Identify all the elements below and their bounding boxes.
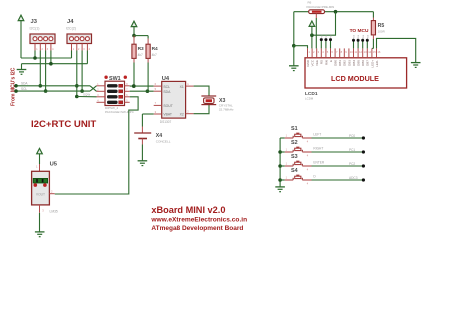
battery X4 value CONCELL [156,139,171,143]
battery X4 pin - wire [141,139,143,161]
junction SQW wire end [75,95,79,99]
junction SDA left end [14,84,18,88]
svg-text:DB2: DB2 [343,60,347,66]
svg-text:LED-: LED- [375,60,379,67]
svg-text:TO MCU: TO MCU [350,28,369,34]
svg-text:VCC: VCC [311,59,315,66]
crystal X3 value CRYSTAL [219,103,233,107]
IC U4 pin 5 SDA stub [154,87,162,91]
switch S4 function label D [313,174,316,178]
switch SW1 rocker elements [107,84,123,104]
junction SCL left end [14,89,18,93]
node PC2 endpoint [362,164,365,167]
sensor U5 indicator dots [34,183,47,187]
switch S3 pin 1 lead [280,162,293,166]
svg-text:4k7: 4k7 [152,53,157,57]
wire J4 pin2 down to SQW [76,51,78,97]
IC U4 pin 6 SCL stub [154,82,162,86]
switch S3 label [291,154,298,160]
svg-text:I2C+RTC UNIT: I2C+RTC UNIT [31,119,96,130]
switch S1 label [291,126,298,132]
wire SW1 pin8 to U4 SCL [130,85,154,87]
svg-text:VEE: VEE [315,60,319,66]
power VCC symbol (pullups) [131,21,137,35]
svg-text:100R: 100R [378,29,386,33]
sensor U5 pin 3 stub [40,205,45,213]
resistor R4 body [146,44,150,58]
junction J3 pin2 / SDA [39,84,43,88]
svg-text:DS1307: DS1307 [160,120,172,124]
wire U5 pin3 to ground [39,213,41,232]
junction J4 pin2 / SDA [75,84,79,88]
svg-text:R6: R6 [308,0,312,4]
connector J4 value I2C(2) [66,27,76,31]
svg-text:15: 15 [373,50,376,54]
junction bus/S3 [278,164,282,168]
crystal X3 value 32.768kHz [219,107,234,111]
wire SW1 pin7 to U4 SDA [130,90,154,92]
svg-text:DB4: DB4 [352,60,356,66]
svg-text:DB6: DB6 [361,60,365,66]
switch S4 pin 4 lead [302,180,311,185]
svg-text:ATmega8 Development Board: ATmega8 Development Board [151,225,243,232]
LCD1 pin names [306,59,379,67]
svg-text:R3: R3 [138,46,144,52]
net label PC2 [349,162,355,166]
crystal X3 body [204,98,214,104]
connector J3 value I2C(1) [30,27,40,31]
svg-text:SDA: SDA [21,82,28,86]
svg-text:www.eXtremeElectronics.co.in: www.eXtremeElectronics.co.in [150,216,247,223]
wire GND rail to J3/J4 pin4 [22,51,88,64]
junction VCC rail / J3 pin1 [33,56,37,60]
net wire PC0 [312,137,364,139]
connector J3 pins 1-4 [35,44,54,51]
resistor R3 pin 2 wire to SCL net [133,58,135,86]
svg-text:J4: J4 [67,19,74,25]
net label PC1 [349,148,355,152]
wire crossover SCL to SW1 pin1 [90,86,97,91]
net wire PC1 [312,151,364,153]
sensor U5 value LM35 [50,210,58,214]
svg-text:LCDM: LCDM [305,96,314,100]
text I2C+RTC UNIT title [31,119,96,130]
wire LCD GND feed [293,12,295,46]
LCD1 pins 1-16 [308,48,381,57]
text LCD MODULE [331,74,379,83]
svg-text:LEFT: LEFT [313,132,321,136]
svg-text:DB7: DB7 [366,60,370,66]
svg-text:R5: R5 [378,23,385,29]
switch S4 label [291,168,298,174]
svg-text:PC2: PC2 [349,162,355,166]
svg-text:4k7: 4k7 [138,53,143,57]
switch S1 pin 4 lead [302,138,311,143]
svg-text:X2: X2 [180,113,184,117]
svg-text:SQW: SQW [83,92,90,96]
switch S2 label [291,140,298,146]
LCD1 label [305,91,318,97]
wire U4 VBAT to battery [142,114,153,127]
wire J4 pin3 to SCL [81,51,83,92]
switch S4 pin 1 lead [280,176,293,180]
trimmer R6 wiper wire to VEE pin [315,14,317,49]
svg-text:14: 14 [368,50,371,54]
switch S1 function label LEFT [313,132,321,136]
svg-text:PC0: PC0 [349,134,355,138]
power VCC symbol (LCD) [309,21,315,48]
svg-text:U5: U5 [50,161,58,167]
svg-text:DB5: DB5 [357,60,361,66]
connector J4 body [67,34,92,44]
resistor R4 pin 1 [147,39,149,45]
text TO MCU [350,28,369,34]
junction bus/S4 [278,178,282,182]
text www.eXtremeElectronics.co.in [150,216,247,223]
svg-text:10: 10 [350,50,353,54]
junction bus/S2 [278,150,282,154]
text ATmega8 Development Board [151,225,243,232]
svg-text:LCD MODULE: LCD MODULE [331,74,379,83]
sensor U5 pin 1 stub [36,164,40,171]
junction J4 pin3 / SCL [80,89,84,93]
LCD1 module body [305,58,407,88]
wire to LCD pin1 GND [294,46,308,49]
sensor U5 VOUT text [36,192,45,196]
ground (I2C headers) [17,64,27,75]
switch S3 button [293,161,302,166]
switch S1 pin 1 lead [280,134,293,138]
sensor U5 body [32,171,50,205]
LCD1 value LCDM [305,96,314,100]
svg-text:S4: S4 [291,168,298,174]
svg-text:SCL: SCL [21,87,27,91]
svg-text:xBoard MINI v2.0: xBoard MINI v2.0 [151,205,225,215]
battery X4 plates [134,133,151,139]
resistor R3 body [132,44,136,58]
resistor R4 value 4k7 [152,53,157,57]
svg-text:12: 12 [359,50,362,54]
svg-text:32.768kHz: 32.768kHz [219,107,234,111]
junction R3 / SCL wire [132,84,136,88]
ground (LM35) [35,232,45,237]
svg-text:SCL: SCL [163,85,170,89]
svg-text:X4: X4 [156,133,162,139]
wire crossover SDA to SW1 pin2 [90,86,97,92]
svg-text:RS: RS [320,60,324,64]
junction R4 / SDA wire [146,89,150,93]
switch SW1 body [105,81,125,105]
sensor U5 display bar [33,178,47,183]
switch S3 function label ENTER [313,160,325,164]
junction VCC / R3 R4 branch [132,34,136,38]
svg-text:DB1: DB1 [338,60,342,66]
switch S1 button [293,133,302,138]
svg-text:DB0: DB0 [334,60,338,66]
IC U4 pin 2 X2 stub [186,110,194,114]
svg-text:PACKAGE=PRE-MIN: PACKAGE=PRE-MIN [307,5,335,9]
power VCC symbol (J3/J4 supply) [18,15,24,58]
switch S2 pin 1 lead [280,148,293,152]
wire VCC branch down-left [312,12,336,36]
svg-text:SDA: SDA [163,90,171,94]
svg-text:S2: S2 [291,140,298,146]
wire VCC rail to J3/J4 pin1 [21,51,72,59]
connector J4 label [67,19,74,25]
node PC1 endpoint [362,150,365,153]
wire SW1 pin6 to LM35 VOUT (staple) [55,97,138,194]
switch S2 button [293,147,302,152]
svg-text:ENTER: ENTER [313,160,325,164]
svg-text:GND: GND [306,59,310,67]
resistor R4 pin 2 wire to SDA net [147,58,149,91]
net label SCL [21,87,27,91]
connector J3 label [31,19,38,25]
resistor R4 label [152,46,158,52]
net label SQW [83,92,90,96]
ground (LCD left) [289,66,299,71]
svg-text:RW: RW [324,60,328,65]
trimmer R6 value PACKAGE=PRE-MIN [307,5,335,9]
svg-text:SOUT: SOUT [163,104,172,108]
svg-text:X1: X1 [180,85,184,89]
battery X4 label [156,133,162,139]
svg-text:16: 16 [377,50,380,54]
switch SW1 right pins 8-5 [125,84,130,103]
connector J3 body [30,34,55,44]
resistor R5 label [378,23,385,29]
svg-text:S1: S1 [291,126,298,132]
resistor R5 body [371,21,375,35]
resistor R3 pin 1 [133,36,135,45]
power VCC symbol (LM35) [37,148,43,164]
crystal X3 label [219,98,225,104]
wire LCD VCC top rail [294,11,374,13]
wire VCC branch to R4 [134,36,148,39]
switch S2 function label RIGHT [313,146,323,150]
svg-text:From MCU's I2C: From MCU's I2C [11,67,17,106]
IC U4 label [162,76,170,82]
svg-text:CONCELL: CONCELL [156,139,171,143]
trimmer R6 body [309,10,325,14]
wire switch ground bus [279,138,281,187]
wire J3 pin2 to SDA [39,51,41,86]
resistor R5 pin2 wire to LED+ pin [372,35,374,49]
svg-text:R4: R4 [152,46,158,52]
switch S3 pin 4 lead [302,166,311,171]
wire U4 X1 to crystal [194,86,209,96]
trimmer R6 label [308,0,312,4]
resistor R3 value 4k7 [138,53,143,57]
svg-text:DB3: DB3 [347,60,351,66]
junction GND rail / J3 pin4 [49,62,53,66]
switch SW1 left pins 1-4 [97,84,106,103]
svg-text:13: 13 [364,50,367,54]
svg-text:LM35: LM35 [50,210,58,214]
net label PC0 [349,134,355,138]
ground (switch bus) [275,187,285,192]
IC U4 pin names [163,85,184,117]
text xBoard MINI v2.0 [151,205,225,215]
svg-text:VOUT: VOUT [36,192,45,196]
switch S2 pin 4 lead [302,152,311,157]
IC U4 pin 7 SOUT stub [154,101,162,105]
switch SW1 label with dots [104,76,127,83]
junction VCC branch / VCC pin stem [310,33,314,37]
sensor U5 label [50,161,58,167]
switch SW1 value PACKAGE=SW-DIP4 [105,110,134,114]
svg-text:LED+: LED+ [370,60,374,68]
battery X4 pin + [141,127,143,134]
wire LED- pin to ground [377,38,416,62]
wire crystal to U4 X2 [194,105,209,114]
resistor R5 value 100R [378,29,386,33]
svg-text:ADC3: ADC3 [349,176,358,180]
net label ADC3 [349,176,358,180]
svg-text:S3: S3 [291,154,298,160]
nodes RS RW E to MCU with labels [320,33,333,48]
net SCL wire [16,90,90,92]
svg-text:I2C(2): I2C(2) [66,27,76,31]
resistor R5 pin1 wire from rail [372,12,374,21]
junction J3 pin3 / SCL [44,89,48,93]
svg-text:11: 11 [354,50,357,54]
junction R3 riser on SCL wire [132,84,136,88]
net wire PC2 [312,165,364,167]
node ADC3 endpoint [362,178,365,181]
IC U4 pin 3 VBAT stub [154,110,162,114]
node PC0 endpoint [362,136,365,139]
svg-text:PC1: PC1 [349,148,355,152]
wire GND feed to ground [293,46,295,66]
svg-text:I2C(1): I2C(1) [30,27,40,31]
net label SDA [21,82,28,86]
switch S4 button [293,175,302,180]
wire J3 pin3 to SCL [45,51,47,92]
net SQW wire to SW1 pin3 [77,96,97,98]
IC U4 pin 1 X1 stub [186,82,194,86]
IC U4 body [162,81,186,118]
crystal X3 plates [201,96,216,105]
svg-text:J3: J3 [31,19,38,25]
resistor R3 label [138,46,144,52]
nodes DB4-DB7 to MCU with labels [352,34,369,48]
IC U4 value DS1307 [160,120,172,124]
svg-text:RIGHT: RIGHT [313,146,323,150]
svg-text:E: E [329,60,333,62]
switch SW1 value DIPSW_4 [105,106,119,110]
sensor U5 pin 2 VOUT stub [49,189,54,193]
text From MCU's I2C [11,67,17,106]
ground (battery) [138,161,148,166]
connector J4 pins 1-4 [72,44,91,51]
svg-text:VBAT: VBAT [163,113,172,117]
ground (LCD right) [411,63,421,68]
junction GND feed split [292,44,296,48]
net SDA wire [16,85,90,87]
net wire ADC3 [312,179,364,181]
junction VCC rail / branch [334,10,338,14]
